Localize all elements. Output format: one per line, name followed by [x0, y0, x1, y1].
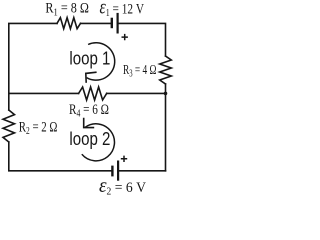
resistor R1 — [57, 18, 81, 29]
wire left side below middle — [8, 93, 10, 110]
resistor R3 — [160, 56, 172, 84]
battery E1 plus sign — [122, 34, 128, 40]
battery E1 long plate — [116, 14, 118, 32]
loop 1 arrowhead — [86, 72, 97, 83]
resistor R2 — [3, 110, 15, 142]
wire E1 to top-right corner — [119, 23, 166, 56]
svg-text:loop 2: loop 2 — [69, 129, 110, 149]
svg-text:R3 = 4 Ω: R3 = 4 Ω — [123, 63, 157, 80]
wire left bottom segment — [9, 142, 111, 171]
battery E1 short plate — [111, 19, 113, 27]
svg-text:R4 = 6 Ω: R4 = 6 Ω — [69, 102, 109, 120]
wire E2 to bottom-right corner — [119, 170, 165, 172]
wire top-left segment — [9, 23, 57, 93]
junction node right middle — [164, 92, 168, 96]
resistor R4 — [79, 87, 107, 100]
svg-text:R1 = 8 Ω: R1 = 8 Ω — [45, 1, 89, 19]
wire R1 to battery E1 — [81, 22, 111, 24]
wire middle right segment — [107, 92, 166, 94]
svg-text:R2 = 2 Ω: R2 = 2 Ω — [19, 119, 58, 137]
wire right side down — [165, 84, 167, 171]
battery E2 short plate — [111, 167, 113, 175]
battery E2 plus sign — [121, 156, 127, 162]
wire middle left segment — [9, 92, 79, 94]
loop 1 arrow arc — [87, 43, 115, 80]
loop 2 arrow arc — [82, 124, 115, 161]
loop 2 arrowhead — [84, 118, 95, 128]
svg-text:loop 1: loop 1 — [69, 49, 110, 69]
battery E2 long plate — [117, 162, 119, 180]
